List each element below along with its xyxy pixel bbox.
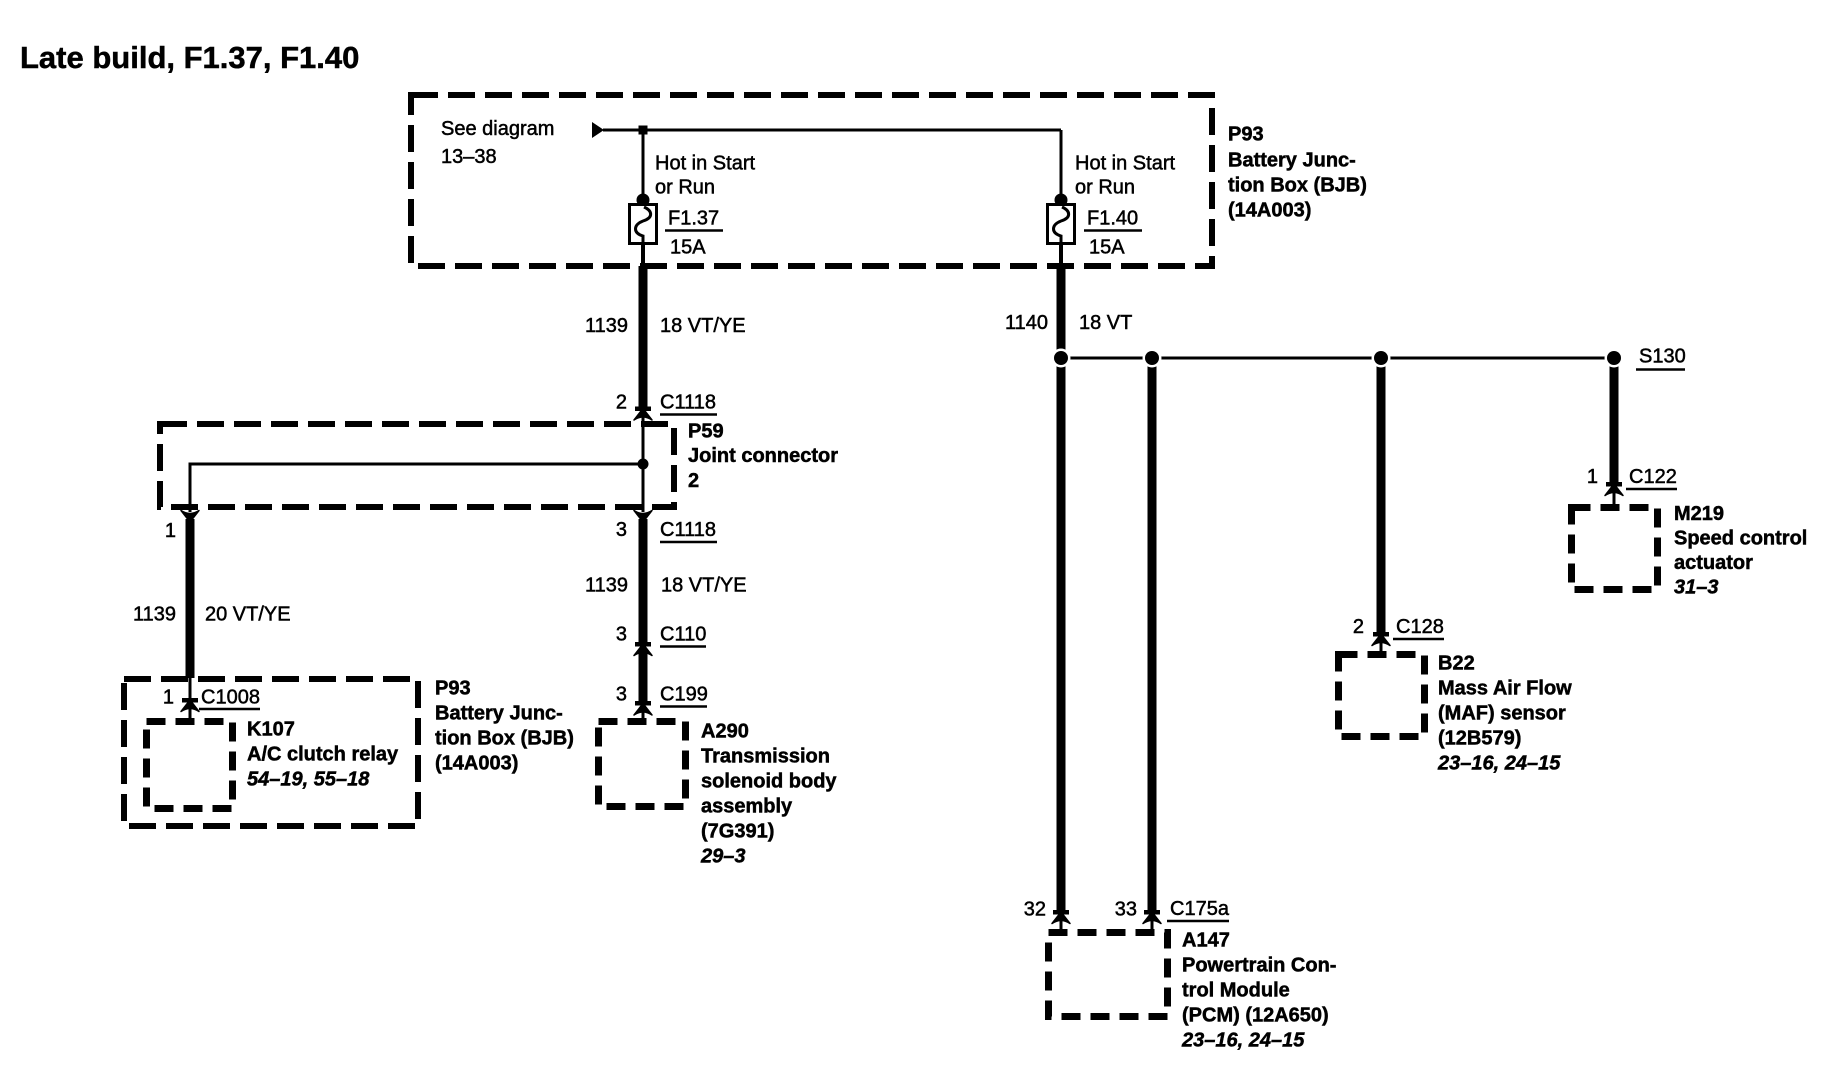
wire 1140 18 VT: fuse F1.40 down to PCM pin 32	[1053, 266, 1069, 915]
wire: inside P93 down to C1008	[182, 678, 198, 703]
svg-text:F1.40: F1.40	[1087, 208, 1138, 230]
svg-text:31–3: 31–3	[1674, 577, 1719, 599]
node: splice dot branch 33	[1143, 349, 1162, 368]
connector C175a pin 32	[1052, 912, 1070, 924]
label: K107 A/C clutch relay 54-19, 55-18	[247, 719, 399, 791]
fuse F1.40	[1048, 194, 1075, 244]
label: B22 Mass Air Flow (MAF) sensor (12B579) 23-16, 24-15	[1437, 653, 1572, 775]
svg-text:18 VT: 18 VT	[1079, 312, 1132, 334]
svg-text:15A: 15A	[670, 237, 706, 259]
label: pin 2, C128	[1353, 616, 1444, 639]
label: circuit 1139, 18 VT/YE (upper)	[585, 315, 746, 337]
connector C175a pin 33	[1143, 912, 1161, 924]
wire: drop from bus to fuse F1.37	[642, 130, 645, 198]
svg-text:3: 3	[616, 519, 627, 541]
wire: inside P59, horizontal bus to pin 1	[190, 464, 643, 512]
svg-text:Hot in Start: Hot in Start	[655, 153, 755, 175]
label: F1.40 / 15A	[1084, 208, 1142, 259]
svg-text:13–38: 13–38	[441, 146, 497, 168]
label: S130	[1636, 346, 1686, 370]
label: pin 2, C1118	[616, 392, 717, 415]
svg-text:F1.37: F1.37	[668, 208, 719, 230]
svg-text:Hot in Start: Hot in Start	[1075, 153, 1175, 175]
svg-text:P59: P59	[688, 421, 724, 443]
svg-text:K107: K107	[247, 719, 295, 741]
svg-text:Joint connector: Joint connector	[688, 445, 838, 467]
wire 1139 18 VT/YE: fuse F1.37 to connector C1118 pin 2	[635, 266, 651, 411]
wire: fuse F1.40 out through BJB edge	[1059, 243, 1063, 267]
svg-text:3: 3	[616, 684, 627, 706]
svg-text:1: 1	[1587, 466, 1598, 488]
label: P59 Joint connector 2	[688, 421, 838, 493]
component M219 speed control actuator box	[1572, 508, 1658, 590]
svg-text:B22: B22	[1438, 653, 1475, 675]
svg-text:(7G391): (7G391)	[701, 821, 774, 843]
svg-text:18 VT/YE: 18 VT/YE	[660, 315, 746, 337]
svg-text:C122: C122	[1629, 466, 1677, 488]
label: P93 Battery Junction Box (BJB) (14A003) lower	[435, 678, 574, 775]
label: pin 3, C110	[616, 624, 706, 647]
svg-text:A/C clutch relay: A/C clutch relay	[247, 744, 399, 766]
node: junction at fuse F1.37 tap	[639, 126, 648, 135]
svg-text:Transmission: Transmission	[701, 746, 830, 768]
svg-text:C1118: C1118	[660, 392, 716, 414]
connector: P59 pin 1 exit	[181, 511, 199, 523]
svg-text:33: 33	[1115, 899, 1137, 921]
svg-text:A290: A290	[701, 721, 749, 743]
label: pin 3, C1118	[616, 519, 717, 542]
label: M219 Speed control actuator 31-3	[1674, 503, 1807, 599]
svg-text:Mass Air Flow: Mass Air Flow	[1438, 678, 1572, 700]
svg-text:C199: C199	[660, 684, 708, 706]
svg-text:Speed control: Speed control	[1674, 528, 1807, 550]
svg-text:actuator: actuator	[1674, 552, 1753, 574]
wire: feed bus from arrow to fuse F1.40 drop	[603, 129, 1061, 132]
svg-text:Late build, F1.37, F1.40: Late build, F1.37, F1.40	[20, 40, 359, 75]
wire: stub into B22	[1380, 641, 1383, 653]
fuse F1.37	[630, 194, 657, 244]
svg-text:P93: P93	[1228, 124, 1264, 146]
label: pin 1, C1008	[163, 687, 260, 710]
svg-text:tion Box (BJB): tion Box (BJB)	[1228, 175, 1367, 197]
svg-text:1: 1	[165, 520, 176, 542]
svg-text:(PCM) (12A650): (PCM) (12A650)	[1182, 1005, 1329, 1027]
wire: inside P59, vertical pin2 to pin3	[642, 415, 645, 512]
connector C1118 pin 2	[634, 409, 652, 421]
connector C128 pin 2	[1372, 634, 1390, 646]
svg-text:54–19, 55–18: 54–19, 55–18	[247, 769, 370, 791]
svg-text:or Run: or Run	[655, 177, 715, 199]
svg-text:(12B579): (12B579)	[1438, 728, 1521, 750]
label: pin 1, C122	[1587, 466, 1677, 489]
wire: fuse F1.37 out through BJB edge	[641, 243, 645, 267]
svg-text:18 VT/YE: 18 VT/YE	[661, 575, 747, 597]
label: C175a	[1167, 898, 1230, 921]
svg-text:C1008: C1008	[201, 687, 260, 709]
connector C1118 pin 3	[634, 511, 652, 523]
svg-text:trol Module: trol Module	[1182, 980, 1290, 1002]
svg-text:29–3: 29–3	[700, 846, 746, 868]
svg-text:or Run: or Run	[1075, 177, 1135, 199]
joint connector P59 enclosure	[160, 424, 674, 507]
node: splice dot on 1140	[1052, 349, 1071, 368]
label: pin 32	[1024, 899, 1046, 921]
label: pin 33	[1115, 899, 1137, 921]
wire: stub into K107	[189, 707, 192, 720]
battery junction box P93 (lower) enclosure	[124, 679, 418, 826]
svg-text:P93: P93	[435, 678, 471, 700]
svg-text:32: 32	[1024, 899, 1046, 921]
component A147 powertrain control module box	[1049, 933, 1168, 1017]
label: P93 Battery Junction Box (BJB) (14A003) top right	[1228, 124, 1367, 222]
svg-text:C1118: C1118	[660, 519, 716, 541]
label: circuit 1140, 18 VT	[1005, 312, 1132, 334]
label: Hot in Start or Run (right)	[1075, 153, 1175, 199]
svg-text:Battery Junc-: Battery Junc-	[1228, 150, 1356, 172]
label: F1.37 / 15A	[665, 208, 723, 259]
connector C1008 pin 1	[181, 700, 199, 712]
node: splice S130	[1605, 349, 1624, 368]
svg-text:2: 2	[616, 392, 627, 414]
wire: splice S130 horizontal bus	[1061, 357, 1614, 360]
svg-text:15A: 15A	[1089, 237, 1125, 259]
label: pin 3, C199	[616, 684, 708, 707]
svg-text:2: 2	[688, 470, 699, 492]
see-diagram feed arrow	[592, 122, 604, 138]
svg-text:(MAF) sensor: (MAF) sensor	[1438, 703, 1566, 725]
svg-text:1: 1	[163, 687, 174, 709]
label: circuit 1139, 20 VT/YE	[133, 604, 291, 626]
wire: branch to PCM pin 33	[1144, 360, 1160, 915]
wire: branch to MAF sensor	[1373, 360, 1389, 637]
label: See diagram 13-38	[441, 118, 554, 168]
wire 1139 18 VT/YE: C1118 pin3 to C110	[635, 519, 651, 647]
wire: C110 to C199	[635, 653, 651, 706]
svg-text:1139: 1139	[585, 315, 628, 337]
svg-text:assembly: assembly	[701, 796, 793, 818]
wire 1139 20 VT/YE: P59 pin1 to BJB(K107)	[186, 519, 195, 678]
connector C110	[634, 644, 652, 656]
wire: stub into M219	[1613, 491, 1616, 506]
component A290 transmission solenoid body assembly box	[599, 722, 686, 807]
wire: drop from bus to fuse F1.40	[1060, 130, 1063, 198]
svg-text:See diagram: See diagram	[441, 118, 554, 140]
svg-text:(14A003): (14A003)	[435, 753, 518, 775]
svg-text:1139: 1139	[585, 575, 628, 597]
svg-text:23–16, 24–15: 23–16, 24–15	[1181, 1030, 1305, 1052]
svg-text:(14A003): (14A003)	[1228, 200, 1311, 222]
label: A147 Powertrain Control Module (PCM) (12A650) 23-16, 24-15	[1181, 930, 1336, 1052]
svg-text:M219: M219	[1674, 503, 1724, 525]
svg-text:Battery Junc-: Battery Junc-	[435, 703, 563, 725]
svg-text:C175a: C175a	[1170, 898, 1230, 920]
label: A290 Transmission solenoid body assembly (7G391) 29-3	[700, 721, 837, 868]
node: splice dot branch MAF	[1372, 349, 1391, 368]
svg-text:23–16, 24–15: 23–16, 24–15	[1437, 753, 1561, 775]
svg-text:1139: 1139	[133, 604, 176, 626]
wire: stub into A290	[642, 710, 645, 720]
svg-text:3: 3	[616, 624, 627, 646]
label: circuit 1139, 18 VT/YE (lower)	[585, 575, 747, 597]
wire: stubs into PCM	[1061, 919, 1152, 931]
node: junction inside P59	[638, 459, 649, 470]
svg-text:1140: 1140	[1005, 312, 1048, 334]
label: pin 1 of P59	[165, 520, 176, 542]
svg-text:2: 2	[1353, 616, 1364, 638]
svg-text:tion Box (BJB): tion Box (BJB)	[435, 728, 574, 750]
component B22 mass air flow sensor box	[1339, 655, 1425, 737]
svg-text:C110: C110	[660, 624, 706, 646]
title: Late build, F1.37, F1.40	[20, 40, 359, 75]
connector C199	[634, 704, 652, 716]
svg-text:A147: A147	[1182, 930, 1230, 952]
relay K107 A/C clutch relay box	[147, 722, 233, 809]
svg-text:S130: S130	[1639, 346, 1686, 368]
battery junction box P93 (BJB) enclosure	[411, 95, 1212, 266]
svg-text:solenoid body: solenoid body	[701, 771, 837, 793]
connector C122 pin 1	[1605, 484, 1623, 496]
wire: branch to speed control actuator	[1606, 360, 1622, 487]
svg-text:C128: C128	[1396, 616, 1444, 638]
svg-text:Powertrain Con-: Powertrain Con-	[1182, 955, 1336, 977]
label: Hot in Start or Run (left)	[655, 153, 755, 199]
svg-text:20 VT/YE: 20 VT/YE	[205, 604, 291, 626]
